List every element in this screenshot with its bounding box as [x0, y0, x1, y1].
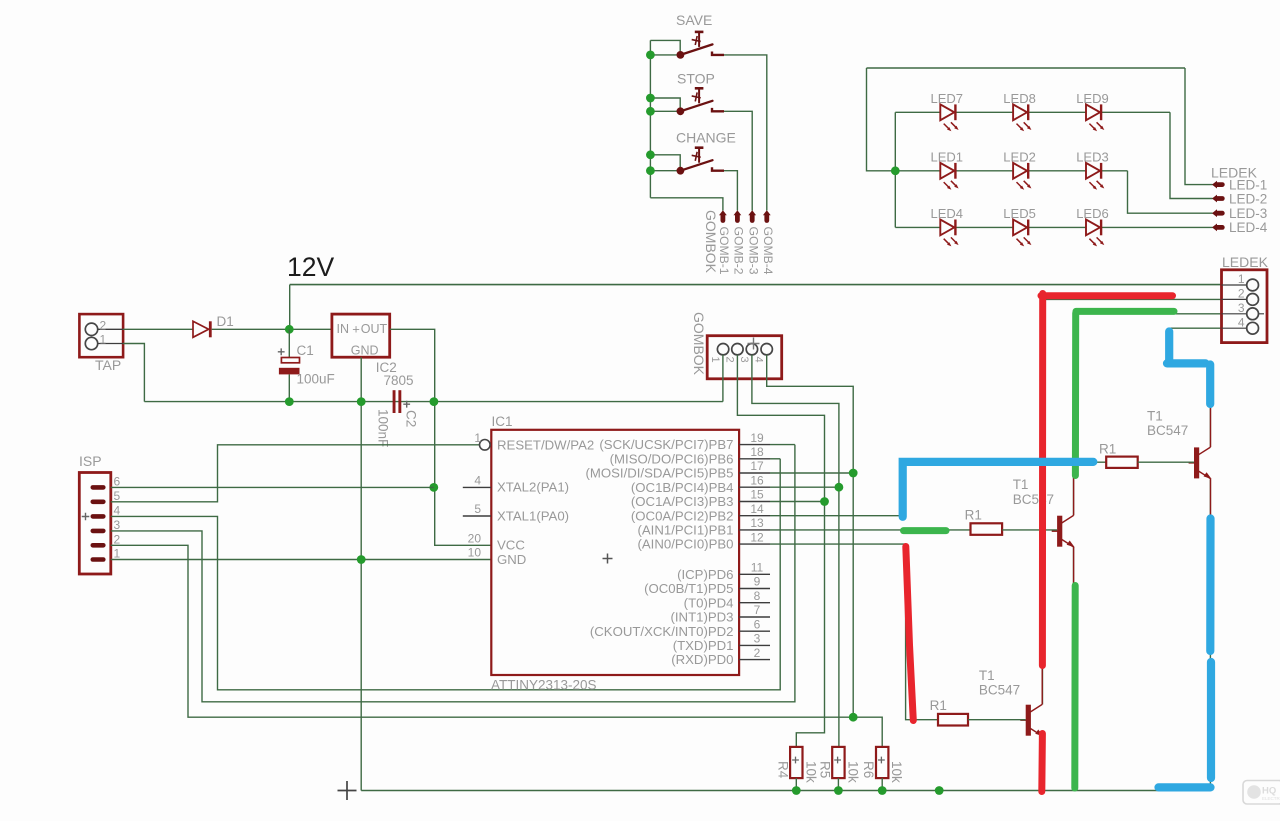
- svg-text:LED7: LED7: [931, 91, 964, 106]
- svg-text:HQ: HQ: [1262, 786, 1276, 797]
- junction D1/C1/12V node: [285, 325, 294, 334]
- IC U1 pin 14 stub: [739, 515, 770, 517]
- wire STOP lower feed: [650, 110, 677, 112]
- svg-text:LEDEK: LEDEK: [1222, 254, 1269, 270]
- LED LED5: [1013, 220, 1031, 247]
- svg-text:2: 2: [100, 319, 107, 333]
- svg-text:TAP: TAP: [95, 357, 121, 373]
- wire PB6 net: [770, 458, 780, 460]
- svg-text:GOMB-3: GOMB-3: [747, 227, 761, 275]
- wire LEDEK pin2 net: [1043, 298, 1222, 300]
- junction R6-bus: [878, 786, 887, 795]
- junction bus-CHANGE jog: [646, 150, 655, 159]
- switch CHANGE plunger: [691, 148, 704, 163]
- wire C1 bottom lead: [288, 374, 290, 401]
- LED LED4: [940, 220, 958, 247]
- svg-text:LED8: LED8: [1003, 91, 1036, 106]
- ISP pin stub 6: [93, 485, 104, 490]
- marker green vertical upper: [1072, 313, 1079, 476]
- svg-text:STOP: STOP: [677, 71, 715, 87]
- wire PB7 net: [770, 444, 795, 446]
- svg-text:(MOSI/DI/SDA/PCI5)PB5: (MOSI/DI/SDA/PCI5)PB5: [585, 466, 733, 481]
- wire LEDEK pin3 net: [1074, 313, 1222, 315]
- wire R1 mid to base: [1002, 529, 1057, 531]
- wire PB5 row: [770, 472, 853, 474]
- svg-text:3: 3: [1238, 301, 1245, 315]
- switch STOP right contact: [712, 108, 724, 111]
- wire bottom gnd bus: [361, 790, 1210, 792]
- svg-text:LED-2: LED-2: [1229, 191, 1267, 206]
- svg-text:LED6: LED6: [1076, 206, 1109, 221]
- svg-text:(INT1)PD3: (INT1)PD3: [670, 610, 733, 625]
- svg-text:12: 12: [750, 530, 764, 544]
- marker blue PB2 net: [903, 462, 1094, 517]
- marker blue emitter long lower: [1207, 662, 1215, 778]
- IC U1 pin 15 stub: [739, 501, 770, 503]
- svg-text:D1: D1: [217, 314, 234, 329]
- svg-text:(T0)PD4: (T0)PD4: [684, 595, 734, 610]
- svg-text:IC1: IC1: [492, 414, 513, 429]
- switch CHANGE lever: [680, 160, 712, 171]
- ISP pin stub 5: [93, 499, 104, 504]
- svg-text:(OC0A/PCI2)PB2: (OC0A/PCI2)PB2: [631, 508, 734, 523]
- transistor T1 (bottom) (BC547 NPN): [1020, 665, 1043, 775]
- svg-text:15: 15: [750, 488, 764, 502]
- net stub LED-4: [1212, 224, 1222, 232]
- IC U1 pin 9 stub: [739, 588, 770, 590]
- svg-text:C1: C1: [297, 343, 314, 358]
- svg-text:(OC1B/PCI4)PB4: (OC1B/PCI4)PB4: [631, 480, 734, 495]
- junction PB5: [849, 469, 858, 478]
- marker red vertical lower: [1038, 734, 1046, 792]
- wire R1 bottom to base: [968, 719, 1026, 721]
- svg-text:2: 2: [114, 533, 121, 547]
- wire PB1 net to R1 mid: [770, 529, 971, 531]
- IC U1 pin 19 stub: [739, 444, 770, 446]
- svg-text:4: 4: [753, 357, 765, 363]
- LED LED9: [1086, 104, 1104, 131]
- svg-text:4: 4: [114, 504, 121, 518]
- IC U1 pin4 stub: [463, 486, 491, 488]
- wire LEDEK2 net down to bottom transistor: [1042, 299, 1044, 704]
- svg-text:(RXD)PD0: (RXD)PD0: [671, 652, 733, 667]
- svg-text:2: 2: [1238, 287, 1245, 301]
- svg-text:(OC1A/PCI3)PB3: (OC1A/PCI3)PB3: [631, 494, 734, 509]
- svg-text:LED-1: LED-1: [1229, 177, 1267, 192]
- wire ISP1/GND row: [111, 559, 491, 561]
- svg-text:RESET/DW/PA2: RESET/DW/PA2: [497, 437, 594, 452]
- marker blue emitter long upper: [1206, 519, 1214, 652]
- wire gnd bus: [144, 401, 723, 403]
- svg-text:ATTINY2313-20S: ATTINY2313-20S: [491, 678, 597, 693]
- wire bottom transistor emitter to bus: [1041, 737, 1043, 791]
- junction PB3: [820, 497, 829, 506]
- wire D1 to 7805 IN: [212, 328, 332, 330]
- svg-text:9: 9: [754, 575, 761, 589]
- svg-text:(CKOUT/XCK/INT0)PD2: (CKOUT/XCK/INT0)PD2: [590, 624, 734, 639]
- LED LED3: [1086, 163, 1104, 190]
- junction bus-CHANGE: [646, 166, 655, 175]
- svg-text:3: 3: [738, 357, 750, 363]
- svg-text:100uF: 100uF: [297, 372, 335, 387]
- svg-text:ISP: ISP: [79, 453, 102, 469]
- svg-text:R5: R5: [817, 761, 832, 778]
- ISP pin stub 2: [93, 543, 104, 548]
- svg-text:1: 1: [1238, 272, 1245, 286]
- marker blue bus segment: [1159, 783, 1211, 791]
- wire 7805 GND down: [360, 357, 362, 790]
- svg-text:R1: R1: [1099, 442, 1116, 457]
- wire LED row1 rail: [895, 111, 1170, 113]
- ISP pin stub 1: [93, 557, 104, 562]
- wire LEDEK3 net down to mid transistor: [1073, 314, 1075, 515]
- switch SAVE left contact: [677, 51, 685, 59]
- LED LED2: [1013, 163, 1031, 190]
- connector GOMBOK origin cross: [748, 338, 760, 350]
- svg-text:3: 3: [114, 518, 121, 532]
- connector LEDEK: [1222, 270, 1268, 343]
- switch SAVE right contact: [712, 52, 724, 55]
- junction bus extra node: [935, 786, 944, 795]
- junction PB5-R6: [849, 713, 858, 722]
- svg-text:SAVE: SAVE: [676, 12, 712, 28]
- IC U1 box: [491, 430, 739, 675]
- switch SAVE lever: [680, 44, 712, 55]
- junction gnd row-7805gnd: [357, 555, 366, 564]
- wire STOP output: [724, 111, 752, 210]
- IC U1 pin 16 stub: [739, 486, 770, 488]
- svg-text:1: 1: [114, 547, 121, 561]
- svg-text:R4: R4: [775, 761, 790, 779]
- junction ISP6-5V: [429, 483, 438, 492]
- switch STOP plunger: [691, 88, 704, 103]
- svg-text:IN: IN: [337, 322, 350, 336]
- wire mid transistor emitter to bus: [1073, 548, 1075, 791]
- switch STOP left contact: [677, 107, 685, 115]
- svg-text:BC547: BC547: [979, 682, 1020, 697]
- svg-text:ELECTRO: ELECTRO: [1262, 796, 1280, 801]
- svg-text:1: 1: [100, 333, 107, 347]
- voltage regulator IC2 7805: [332, 314, 390, 357]
- wire LED top-left drop: [867, 68, 892, 171]
- connector ISP: [79, 473, 111, 575]
- IC U1 pin 13 stub: [739, 529, 770, 531]
- IC U1 pin 1 inversion bubble: [480, 440, 491, 451]
- svg-text:GND: GND: [351, 344, 379, 358]
- svg-text:GOMBOK: GOMBOK: [691, 312, 707, 376]
- marker green vertical lower: [1071, 586, 1078, 789]
- net stub GOMB-3: [748, 210, 756, 220]
- marker red vertical upper: [1039, 294, 1046, 666]
- junction LED left column row2: [891, 166, 900, 175]
- svg-text:17: 17: [750, 459, 764, 473]
- svg-text:XTAL1(PA0): XTAL1(PA0): [497, 508, 569, 523]
- svg-text:19: 19: [750, 431, 764, 445]
- marker blue LEDEK4 vertical: [1165, 332, 1173, 362]
- svg-text:1: 1: [709, 357, 721, 363]
- IC U1 pin 18 stub: [739, 458, 770, 460]
- svg-text:GOMB-2: GOMB-2: [732, 227, 746, 275]
- connector GOMBOK: [707, 336, 782, 379]
- svg-text:C2: C2: [404, 410, 419, 427]
- wire PB4 row: [770, 486, 839, 488]
- svg-text:LED-3: LED-3: [1229, 206, 1267, 221]
- junction bus-SAVE: [646, 51, 655, 60]
- connector TAP: [79, 314, 123, 357]
- svg-text:R1: R1: [930, 698, 947, 713]
- transistor T1 (middle) (BC547 NPN): [1052, 476, 1075, 586]
- wire GOMBOK pin1 to gnd bus: [722, 355, 724, 402]
- wire GOMBOK pin2 to PB3/R4: [737, 355, 824, 747]
- LED LED1: [940, 163, 958, 190]
- ISP pin stub 4: [93, 514, 104, 519]
- IC U1 pin 12 stub: [739, 543, 770, 545]
- junction R4-bus: [792, 786, 801, 795]
- wire TAP pin2 to D1: [123, 328, 193, 330]
- resistor R5: [832, 747, 844, 778]
- wire CHANGE output: [724, 171, 737, 211]
- wire top transistor emitter to bus: [1209, 480, 1211, 791]
- svg-text:8: 8: [754, 589, 761, 603]
- svg-text:10k: 10k: [803, 761, 818, 783]
- svg-text:20: 20: [468, 532, 482, 546]
- svg-text:7: 7: [754, 603, 761, 617]
- wire TAP pin1 to gnd bus: [123, 344, 144, 402]
- wire LED row3 rail: [895, 226, 1212, 228]
- wire LED left column: [894, 112, 896, 227]
- marker green PB1 segment: [904, 527, 947, 534]
- IC U1 pin 7 stub: [739, 616, 770, 618]
- svg-text:BC547: BC547: [1147, 423, 1188, 438]
- svg-text:LED-4: LED-4: [1229, 220, 1268, 235]
- svg-text:2: 2: [723, 357, 735, 363]
- net stub LED-2: [1212, 195, 1222, 203]
- resistor R4: [790, 747, 802, 778]
- junction bus-5V crossing: [430, 397, 439, 406]
- marker red LEDEK2 horizontal: [1041, 292, 1173, 299]
- wire R6 bottom lead: [881, 778, 883, 790]
- svg-text:6: 6: [114, 475, 121, 489]
- capacitor C1 (polarized): [278, 348, 300, 374]
- junction C1-gnd: [285, 397, 294, 406]
- diode D1: [193, 321, 210, 337]
- marker green LEDEK3 horizontal: [1076, 308, 1174, 315]
- wire LED row2 rail: [895, 170, 1127, 172]
- wire PB3 row: [770, 501, 825, 503]
- svg-text:10: 10: [468, 546, 482, 560]
- wire LEDEK4 net down to top transistor: [1169, 328, 1210, 447]
- IC U1 origin cross: [603, 554, 613, 564]
- svg-text:(AIN0/PCI0)PB0: (AIN0/PCI0)PB0: [637, 537, 733, 552]
- wire C1 top lead: [288, 329, 290, 357]
- wire 7805 OUT to VCC: [390, 329, 491, 545]
- wire ISP5 to RESET: [111, 445, 479, 502]
- wire R1 top to base: [1138, 461, 1194, 463]
- wire R4 bottom lead: [795, 778, 797, 790]
- marker blue collector segment: [1206, 365, 1214, 405]
- resistor R1 (middle): [971, 523, 1003, 535]
- net stub LED-3: [1212, 209, 1222, 217]
- svg-text:10k: 10k: [845, 761, 860, 783]
- svg-text:2: 2: [754, 646, 761, 660]
- net stub GOMB-4: [763, 210, 771, 220]
- junction bus-STOP jog: [646, 94, 655, 103]
- junction R5-bus: [834, 786, 843, 795]
- svg-text:BC547: BC547: [1013, 492, 1054, 507]
- switch STOP lever: [680, 101, 712, 112]
- net stub GOMB-2: [734, 210, 742, 220]
- svg-text:(OC0B/T1)PD5: (OC0B/T1)PD5: [644, 581, 733, 596]
- IC U1 pin 17 stub: [739, 472, 770, 474]
- wire button common bus: [649, 40, 651, 197]
- IC U1 pin 2 stub: [739, 659, 770, 661]
- junction bus-STOP: [646, 107, 655, 116]
- switch CHANGE right contact: [712, 167, 724, 170]
- svg-text:LED2: LED2: [1003, 149, 1036, 164]
- wire GOMB-1 from bus: [650, 198, 723, 211]
- svg-text:LED1: LED1: [931, 149, 964, 164]
- wire LED row2 to LED-3 stub: [1128, 171, 1213, 213]
- capacitor C2: [393, 390, 411, 413]
- net stub GOMB-1: [719, 210, 727, 220]
- sheet origin cross: [338, 781, 357, 800]
- marker red PB0 slant: [906, 547, 914, 721]
- wire 12V drop to D1 node: [289, 285, 291, 330]
- svg-text:16: 16: [750, 473, 764, 487]
- net stub LED-1: [1212, 181, 1222, 189]
- svg-text:18: 18: [750, 445, 764, 459]
- svg-text:GOMBOK: GOMBOK: [703, 210, 719, 274]
- svg-text:(AIN1/PCI1)PB1: (AIN1/PCI1)PB1: [637, 523, 733, 538]
- svg-text:LED5: LED5: [1003, 206, 1036, 221]
- wire SAVE lower feed: [650, 54, 677, 56]
- svg-text:+: +: [352, 322, 360, 337]
- LED LED6: [1086, 220, 1104, 247]
- wire GOMBOK pin3 to PB4/R5: [752, 355, 839, 747]
- svg-text:6: 6: [754, 617, 761, 631]
- wire SAVE upper jog: [650, 40, 680, 55]
- svg-text:OUT: OUT: [361, 322, 388, 336]
- svg-text:1: 1: [474, 431, 481, 445]
- svg-text:4: 4: [1238, 315, 1245, 329]
- svg-text:GND: GND: [497, 552, 526, 567]
- svg-text:VCC: VCC: [497, 538, 525, 553]
- LED LED8: [1013, 104, 1031, 131]
- wire top rail to LED-1 stub: [1185, 68, 1213, 185]
- IC U1 pin5 stub: [463, 515, 491, 517]
- svg-text:T1: T1: [1013, 477, 1029, 492]
- wire ISP2 to PB5 (MOSI): [111, 545, 853, 717]
- junction PB4: [835, 483, 844, 492]
- svg-text:(SCK/UCSK/PCI7)PB7: (SCK/UCSK/PCI7)PB7: [599, 437, 733, 452]
- svg-text:10k: 10k: [889, 761, 904, 783]
- svg-text:GOMB-4: GOMB-4: [761, 227, 775, 275]
- svg-text:12V: 12V: [287, 252, 334, 282]
- svg-text:(MISO/DO/PCI6)PB6: (MISO/DO/PCI6)PB6: [610, 451, 734, 466]
- IC U1 pin 11 stub: [739, 573, 770, 575]
- svg-text:XTAL2(PA1): XTAL2(PA1): [497, 480, 569, 495]
- svg-text:R1: R1: [965, 508, 982, 523]
- svg-text:(ICP)PD6: (ICP)PD6: [677, 567, 733, 582]
- wire ISP4 to PB6 (MISO): [111, 459, 780, 690]
- IC U1 pin 8 stub: [739, 602, 770, 604]
- svg-text:4: 4: [474, 474, 481, 488]
- svg-text:13: 13: [750, 516, 764, 530]
- marker blue LEDEK4 horizontal: [1167, 359, 1206, 367]
- svg-text:(TXD)PD1: (TXD)PD1: [673, 638, 734, 653]
- resistor R1 (bottom): [938, 714, 968, 726]
- wire R5 bottom lead: [837, 778, 839, 790]
- switch SAVE plunger: [691, 32, 704, 47]
- ISP pin stub 3: [93, 529, 104, 534]
- wire STOP upper jog: [650, 98, 680, 111]
- wire PB0 net to R1 bottom: [770, 544, 938, 720]
- wire ISP3 to PB7 (SCK): [111, 445, 795, 702]
- svg-text:LED4: LED4: [931, 206, 964, 221]
- wire CHANGE upper jog: [650, 155, 680, 171]
- wire 12V rail: [290, 284, 1222, 286]
- svg-text:3: 3: [754, 632, 761, 646]
- svg-text:CHANGE: CHANGE: [676, 130, 736, 146]
- svg-text:14: 14: [750, 502, 764, 516]
- wire GOMBOK pin4 to PB5/R6: [767, 355, 854, 717]
- svg-text:LED3: LED3: [1076, 149, 1109, 164]
- svg-text:11: 11: [751, 561, 764, 575]
- wire PB2 net to R1 top: [770, 462, 1106, 516]
- wire R6 top jog: [853, 717, 882, 747]
- wire ISP6 to 5V: [111, 486, 434, 488]
- transistor T1 (top) (BC547 NPN): [1189, 408, 1212, 518]
- svg-text:T1: T1: [979, 668, 995, 683]
- IC U1 pin 3 stub: [739, 644, 770, 646]
- svg-text:7805: 7805: [384, 373, 414, 388]
- wire LED top rail: [867, 67, 1186, 69]
- switch CHANGE left contact: [677, 167, 685, 175]
- junction 7805gnd-bus: [357, 397, 366, 406]
- LED LED7: [940, 104, 958, 131]
- wire LED row1 to LED-2 stub: [1170, 112, 1213, 198]
- wire LEDEK pin4 net: [1169, 327, 1222, 329]
- IC U1 pin 6 stub: [739, 630, 770, 632]
- svg-text:R6: R6: [861, 761, 876, 778]
- svg-text:5: 5: [114, 489, 121, 503]
- wire CHANGE lower feed: [650, 170, 677, 172]
- svg-text:5: 5: [474, 502, 481, 516]
- svg-text:100nF: 100nF: [375, 409, 390, 447]
- resistor R6: [876, 747, 888, 778]
- svg-text:T1: T1: [1147, 409, 1163, 424]
- wire SAVE output: [724, 55, 767, 211]
- watermark badge: [1243, 781, 1280, 805]
- resistor R1 (top): [1106, 457, 1138, 468]
- svg-text:LED9: LED9: [1076, 91, 1109, 106]
